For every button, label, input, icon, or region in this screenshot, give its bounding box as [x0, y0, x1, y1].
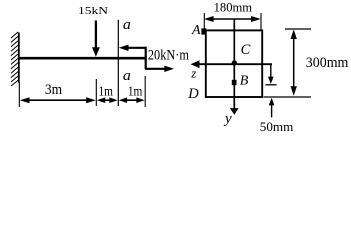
moment couple top arm: [119, 45, 146, 51]
z-axis line: [197, 63, 272, 65]
svg-text:20kN·m: 20kN·m: [148, 48, 190, 64]
svg-text:A: A: [191, 23, 201, 38]
svg-text:1m: 1m: [128, 83, 143, 98]
svg-text:50mm: 50mm: [260, 119, 294, 134]
dimension extension left for 180mm: [203, 13, 205, 30]
svg-text:z: z: [190, 66, 196, 81]
point marker B: [232, 80, 237, 85]
dimension line 3m: [20, 97, 96, 103]
svg-text:C: C: [241, 42, 251, 58]
50mm upper arrow (pointing down): [268, 64, 274, 84]
svg-text:a: a: [123, 17, 131, 33]
svg-text:D: D: [187, 86, 199, 102]
point marker A: [201, 28, 206, 34]
dimension line 180mm: [204, 16, 261, 22]
force arrow 15kN: [92, 21, 100, 57]
z-axis arrowhead: [191, 60, 200, 68]
dimension extension tick at beam end: [144, 76, 146, 107]
dimension extension tick below wall: [18, 82, 20, 107]
svg-text:300mm: 300mm: [306, 55, 349, 71]
fixed support wall hatching: [11, 32, 18, 86]
y-axis arrowhead: [230, 108, 239, 115]
dimension line 1m (second): [119, 97, 145, 103]
dimension line 300mm: [291, 30, 297, 96]
svg-text:y: y: [223, 111, 232, 127]
moment couple vertical arm: [145, 47, 147, 70]
svg-text:a: a: [123, 68, 131, 84]
fixed support wall face line: [18, 33, 20, 83]
svg-text:B: B: [240, 73, 249, 88]
centroid dot C: [232, 60, 237, 65]
B level tick for 50mm: [266, 84, 277, 86]
beam: [19, 57, 146, 60]
svg-text:15kN: 15kN: [78, 5, 108, 17]
cross-section rectangle outline: [206, 30, 262, 97]
vertical centerline / y-axis through section: [233, 20, 235, 110]
50mm lower arrow (pointing up): [269, 98, 275, 118]
svg-text:180mm: 180mm: [214, 0, 253, 15]
svg-text:1m: 1m: [99, 83, 114, 98]
dimension extension right for 180mm: [260, 13, 262, 30]
svg-text:3m: 3m: [45, 82, 63, 98]
moment couple bottom arm: [145, 66, 174, 72]
dimension line 1m (first): [97, 97, 118, 103]
section line a-a: [117, 20, 119, 106]
dimension extension tick below force: [95, 79, 97, 106]
top extension line for 300mm: [285, 28, 311, 30]
extension of bottom edge to the right: [264, 96, 312, 98]
